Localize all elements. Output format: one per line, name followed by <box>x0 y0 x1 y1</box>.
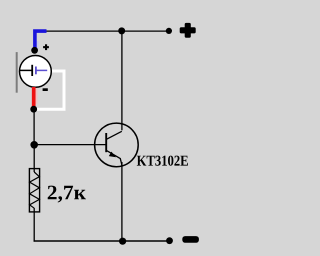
white wire from battery right to bottom node <box>34 71 64 109</box>
minus terminal symbol <box>182 236 199 243</box>
transistor label KT3102E <box>137 156 188 166</box>
wire to resistor <box>33 145 35 172</box>
value label 2,7k <box>48 186 86 203</box>
node bottom right terminal <box>166 237 173 244</box>
wire base lead <box>34 144 106 146</box>
wire top rail <box>44 30 169 32</box>
battery handle gray line <box>16 52 18 93</box>
wire bottom rail <box>34 240 170 242</box>
resistor R1 <box>29 169 39 212</box>
node below battery <box>30 106 37 113</box>
transistor Q1 <box>95 123 139 167</box>
lavender remnant patch <box>36 41 39 49</box>
wire collector vertical <box>121 31 123 130</box>
node collector junction <box>118 27 125 34</box>
wire resistor to bottom rail <box>33 208 35 242</box>
node top right terminal <box>166 28 172 34</box>
plus terminal symbol <box>180 23 196 38</box>
wire emitter vertical <box>121 162 123 241</box>
red wire battery minus <box>32 87 36 108</box>
wire left vertical <box>33 109 35 145</box>
battery polarity minus label <box>43 88 48 91</box>
battery polarity plus label <box>43 44 49 50</box>
pink remnant patch <box>36 88 38 104</box>
node base junction <box>30 141 38 149</box>
battery U1 <box>20 56 52 88</box>
node battery top <box>31 47 38 54</box>
node emitter junction <box>119 238 126 245</box>
blue wire battery plus <box>35 31 47 48</box>
